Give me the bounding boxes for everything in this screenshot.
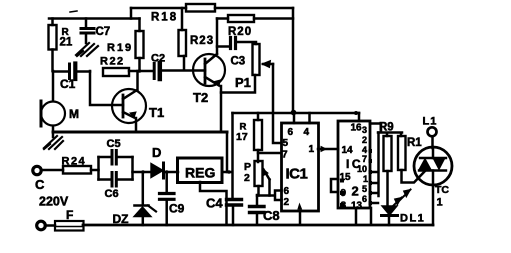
svg-text:17: 17: [236, 131, 248, 143]
svg-text:C8: C8: [263, 208, 280, 223]
IC IC2: [338, 121, 370, 208]
node V+ riser: [291, 110, 297, 116]
svg-text:6: 6: [284, 186, 290, 197]
potentiometer P1: [253, 44, 282, 143]
svg-text:14: 14: [342, 145, 354, 156]
svg-text:M: M: [69, 107, 79, 121]
capacitor C4: [227, 200, 242, 226]
svg-text:C1: C1: [60, 77, 76, 91]
svg-text:4: 4: [304, 127, 310, 138]
capacitor C7: [81, 19, 94, 44]
svg-text:1: 1: [437, 197, 443, 209]
node pin16: [354, 111, 358, 115]
diode D: [151, 163, 178, 178]
svg-text:D: D: [152, 145, 161, 160]
wire ground drop x=227: [226, 132, 229, 172]
wire R22 to C2: [129, 70, 153, 73]
svg-text:T2: T2: [193, 90, 208, 105]
wire R20 right: [254, 17, 293, 20]
resistor R1: [398, 136, 406, 170]
svg-text:L1: L1: [423, 116, 438, 128]
wire C terminal to R24: [41, 169, 63, 172]
svg-text:C9: C9: [169, 202, 185, 216]
zener DZ: [134, 172, 156, 225]
wire REG output: [222, 171, 232, 174]
svg-text:2: 2: [362, 135, 367, 145]
ground (microphone): [44, 136, 63, 149]
svg-text:C2: C2: [151, 53, 165, 65]
wire IC1 pin4 stub: [308, 113, 311, 123]
wire REG ground: [200, 182, 227, 224]
wire R17/P2 node to IC1 pin 7: [258, 152, 280, 155]
svg-text:C3: C3: [231, 56, 246, 68]
svg-text:1: 1: [309, 144, 315, 155]
wire T2 emitter to ground rail: [220, 86, 223, 132]
svg-text:C6: C6: [105, 188, 119, 200]
svg-text:DL1: DL1: [400, 213, 425, 225]
svg-text:C4: C4: [206, 196, 223, 211]
svg-text:2: 2: [284, 197, 290, 208]
svg-text:3: 3: [362, 125, 367, 135]
LED DL1: [382, 190, 411, 226]
svg-text:R9: R9: [379, 122, 394, 134]
wire R24 to C5/C6: [91, 169, 99, 172]
potentiometer P2: [255, 161, 270, 196]
ground (C7): [76, 43, 98, 56]
resistor R9: [384, 136, 392, 171]
svg-text:C7: C7: [96, 26, 111, 38]
svg-text:T1: T1: [149, 105, 164, 120]
wire T2 collector riser: [216, 19, 219, 54]
capacitor C3: [217, 38, 256, 49]
pin mark IC1 bottom: [298, 204, 302, 209]
pin arrow IC1 pin1: [321, 147, 326, 152]
resistor R18: [186, 4, 215, 12]
wire V+ riser x=293: [292, 8, 295, 112]
resistor R17: [254, 113, 262, 162]
IC2 right pin stubs: [370, 133, 379, 204]
wire IC1 pin6 stub: [293, 113, 296, 123]
svg-text:P1: P1: [235, 75, 251, 90]
svg-text:5: 5: [362, 184, 367, 194]
svg-text:21: 21: [60, 37, 73, 49]
fuse F: [37, 221, 84, 231]
svg-text:1: 1: [363, 174, 368, 184]
regulator REG: [178, 158, 223, 183]
capacitor C1: [53, 64, 90, 80]
wire top-left rail y=18.5: [49, 17, 140, 20]
svg-text:7: 7: [362, 154, 367, 164]
svg-text:5: 5: [283, 138, 289, 149]
svg-text:2: 2: [244, 172, 250, 184]
resistor R24: [63, 166, 91, 174]
svg-text:R18: R18: [151, 12, 178, 24]
svg-text:R23: R23: [190, 35, 214, 47]
wire L1 to triac: [431, 137, 434, 149]
wire C8 node to IC1 pins: [257, 191, 282, 201]
svg-text:10: 10: [357, 164, 367, 174]
svg-text:TC: TC: [435, 184, 449, 196]
svg-text:R24: R24: [62, 156, 87, 168]
wire R20 left: [217, 17, 228, 20]
capacitor C6: [99, 173, 133, 187]
resistor R23: [179, 8, 187, 69]
resistor R19: [136, 19, 144, 72]
IC2 bottom stubs: [356, 208, 371, 224]
wire V+ left drop to C4: [231, 113, 234, 198]
node R19/T1 collector: [138, 69, 142, 73]
node DZ: [141, 170, 145, 174]
wire top rail y=8 right of R18: [215, 7, 293, 10]
transistor T2: [193, 54, 225, 86]
wire top rail y=8 left of R18: [131, 7, 186, 10]
node REG output: [227, 170, 231, 174]
svg-text:C: C: [35, 177, 45, 192]
wire node C1/R22 to T1 base: [90, 71, 123, 105]
node C9: [165, 170, 169, 174]
noise dash: [70, 11, 77, 12]
svg-text:R1: R1: [407, 137, 422, 149]
wire bottom rail: [83, 224, 433, 227]
wire T1 emitter to ground rail: [135, 118, 138, 132]
capacitor C9: [160, 172, 175, 225]
pin bracket 15: [331, 179, 338, 192]
wire IC2 pin16 stub: [358, 113, 361, 121]
wire IC1 bottom pin stub: [299, 211, 302, 224]
triac TC1: [414, 147, 452, 225]
svg-text:IC1: IC1: [286, 166, 308, 183]
wire ground rail: [53, 131, 227, 134]
svg-text:16: 16: [351, 123, 363, 134]
wire T1 collector riser: [136, 71, 139, 90]
wire V+ rail y=113: [233, 112, 360, 115]
capacitor C2: [154, 63, 205, 79]
resistor R22: [103, 68, 129, 76]
svg-text:6: 6: [362, 194, 367, 204]
svg-text:C5: C5: [107, 138, 121, 150]
microphone M: [41, 71, 65, 137]
wire R1 bottom to gate: [402, 170, 426, 183]
resistor R20: [228, 15, 254, 22]
wire P1 bottom to emitter: [221, 75, 255, 93]
svg-text:7: 7: [282, 150, 288, 161]
wire riser joining rails: [130, 8, 133, 19]
svg-text:2: 2: [352, 184, 359, 199]
wire R9 bottom to LED: [386, 171, 389, 205]
svg-text:R19: R19: [107, 42, 133, 54]
capacitor C8: [250, 195, 265, 224]
pin marks IC2 left edge: [340, 179, 344, 208]
lamp terminal L1: [428, 127, 437, 136]
pin marks IC2 right edge: [369, 149, 373, 205]
wire C5/C6 to D: [133, 171, 152, 174]
svg-text:R22: R22: [100, 56, 125, 68]
terminal C: [33, 166, 41, 174]
IC IC1: [282, 123, 319, 211]
svg-text:220V: 220V: [39, 195, 69, 209]
wire IC1 pin1 to IC2 pin14: [318, 148, 338, 151]
resistor R21: [49, 19, 57, 72]
svg-text:6: 6: [288, 127, 294, 138]
capacitor C5: [99, 151, 133, 180]
transistor T1: [112, 89, 146, 123]
svg-text:REG: REG: [185, 165, 215, 181]
svg-text:F: F: [66, 208, 73, 222]
wire rail to R9/R1 tops: [370, 124, 402, 137]
